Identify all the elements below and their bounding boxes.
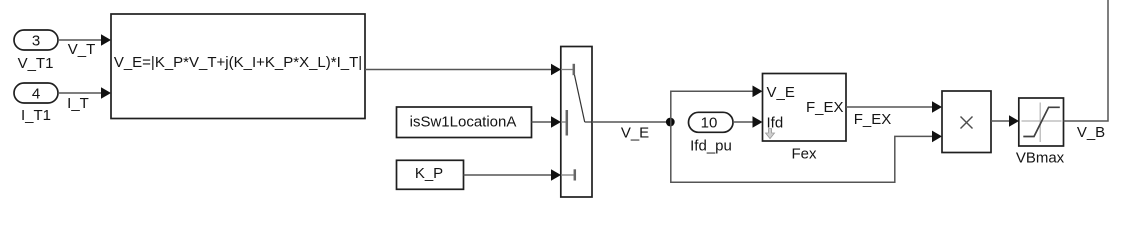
wire V_T: [58, 34, 111, 58]
junction node: [666, 118, 675, 127]
svg-text:V_E: V_E: [621, 125, 649, 142]
svg-text:V_E=|K_P*V_T+j(K_I+K_P*X_L)*I_: V_E=|K_P*V_T+j(K_I+K_P*X_L)*I_T|: [114, 54, 362, 71]
wire branch to Fex V_E input: [671, 86, 763, 123]
block U1: V_E equation: [111, 14, 365, 119]
wire Ifd to Fex: [733, 116, 763, 128]
svg-text:F_EX: F_EX: [806, 99, 844, 116]
svg-text:I_T1: I_T1: [21, 107, 51, 124]
wire K_P to switch in3: [464, 169, 562, 181]
inport 4 (I_T1): [14, 83, 58, 124]
wire V_E from switch output: [592, 122, 671, 142]
svg-text:VBmax: VBmax: [1016, 150, 1065, 167]
svg-text:Ifd_pu: Ifd_pu: [690, 137, 732, 154]
wire V_B output: [1064, 0, 1109, 141]
svg-text:V_B: V_B: [1077, 124, 1105, 141]
constant block K_P: [397, 160, 464, 189]
wire branch to product input 2: [671, 122, 942, 182]
svg-text:V_T1: V_T1: [18, 55, 54, 72]
constant oval 10 (Ifd_pu): [689, 112, 734, 154]
svg-text:F_EX: F_EX: [854, 111, 892, 128]
product block: [942, 91, 991, 153]
svg-text:3: 3: [32, 33, 40, 50]
wire U1 output to switch in1: [365, 64, 561, 76]
wire isSw1LocationA to switch control: [532, 116, 562, 128]
svg-text:isSw1LocationA: isSw1LocationA: [410, 113, 517, 130]
svg-text:4: 4: [32, 86, 40, 103]
wire I_T: [58, 87, 111, 112]
svg-text:K_P: K_P: [415, 165, 443, 182]
switch block Sw1: [561, 47, 592, 198]
saturation block VBmax: [1016, 98, 1065, 167]
wire product to VBmax: [991, 115, 1019, 127]
wire F_EX: [846, 101, 942, 128]
svg-text:Fex: Fex: [791, 146, 817, 163]
svg-text:10: 10: [701, 114, 718, 131]
svg-text:V_T: V_T: [68, 41, 96, 58]
inport 3 (V_T1): [14, 30, 58, 72]
constant block isSw1LocationA: [397, 107, 532, 138]
subsystem block Fex: [763, 74, 847, 163]
svg-text:I_T: I_T: [67, 95, 89, 112]
svg-text:V_E: V_E: [767, 84, 795, 101]
